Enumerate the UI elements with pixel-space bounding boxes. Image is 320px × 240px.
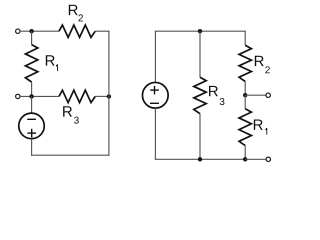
voltage source V (left circuit, circle)	[19, 113, 45, 138]
voltage source minus sign (top)	[27, 118, 36, 120]
junction dot node A	[29, 29, 33, 33]
wire R2 down to node c	[244, 82, 246, 96]
label R2 (left) subscript 2	[78, 14, 83, 21]
junction dot bottom-right node d	[243, 157, 247, 161]
wire R3 down to bottom rail (right)	[199, 114, 201, 160]
voltage source minus sign (bottom)	[150, 102, 159, 104]
wire top-right corner down to R2 (right)	[244, 31, 246, 46]
top rail (right circuit)	[155, 30, 246, 32]
wire node d to terminal d	[245, 158, 266, 160]
bottom rail (left circuit)	[31, 154, 109, 156]
resistor R1 (right circuit, vertical zigzag)	[239, 109, 251, 146]
wire terminal b to node B	[20, 95, 59, 97]
terminal b (lower-left port, open circle)	[16, 94, 20, 98]
label R3 (right) subscript 3	[220, 98, 225, 105]
junction dot top of R3 (right)	[198, 29, 202, 33]
voltage source plus sign (bottom)	[27, 129, 36, 138]
label R3 (right) letter R	[209, 86, 218, 96]
wire node A down to R1	[31, 31, 33, 44]
wire node B down to voltage source	[31, 96, 33, 113]
resistor R2 (left circuit, horizontal zigzag)	[59, 25, 95, 37]
voltage source plus sign (top)	[150, 86, 159, 95]
wire R1 down to node B	[31, 82, 33, 96]
junction dot node c	[243, 93, 247, 97]
terminal c (open circle)	[266, 93, 270, 97]
terminal a (upper-left port, open circle)	[16, 29, 20, 33]
wire R1 down to bottom rail (right)	[244, 146, 246, 160]
wire node c to terminal c	[245, 94, 266, 96]
junction dot bottom of R3 (right)	[198, 157, 202, 161]
label R1 (right) letter R	[254, 120, 263, 130]
label R1 (left) subscript 1	[56, 64, 58, 71]
junction dot node B	[29, 94, 33, 98]
resistor R1 (left circuit, vertical zigzag)	[25, 45, 37, 82]
wire voltage source down to bottom rail	[154, 108, 156, 160]
label R1 (right) subscript 1	[265, 128, 267, 135]
wire R2 to top-right corner	[95, 30, 109, 32]
resistor R3 (left circuit, horizontal zigzag)	[59, 90, 95, 102]
voltage source V (right circuit, circle)	[142, 82, 168, 108]
label R2 (right) letter R	[255, 56, 264, 66]
label R3 (left) letter R	[63, 106, 72, 116]
label R2 (left) letter R	[69, 5, 78, 15]
wire node c down to R1 (right)	[244, 95, 246, 109]
wire voltage source to bottom-left corner	[31, 139, 33, 156]
wire top rail down to voltage source	[154, 31, 156, 83]
wire terminal a to node A	[20, 30, 59, 32]
resistor R3 (right circuit, vertical zigzag)	[194, 77, 206, 113]
label R2 (right) subscript 2	[265, 66, 270, 73]
label R1 (left) letter R	[46, 55, 55, 65]
resistor R2 (right circuit, vertical zigzag)	[239, 45, 251, 81]
label R3 (left) subscript 3	[74, 117, 79, 124]
wire R3 to right rail	[95, 95, 109, 97]
junction dot R3 at right rail	[107, 94, 111, 98]
wire top rail down to R3 (right)	[199, 31, 201, 77]
right rail (left circuit)	[108, 31, 110, 156]
terminal d (open circle)	[266, 157, 270, 161]
bottom rail (right circuit)	[155, 158, 245, 160]
